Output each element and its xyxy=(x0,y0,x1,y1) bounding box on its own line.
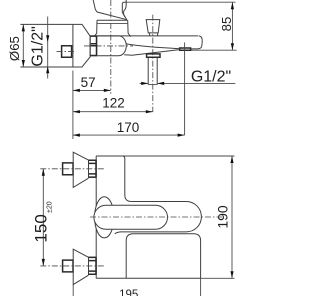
svg-text:Ø65: Ø65 xyxy=(7,36,22,61)
aerator xyxy=(180,48,191,50)
diverter knob xyxy=(146,20,160,33)
svg-text:±20: ±20 xyxy=(46,201,53,213)
svg-text:G1/2": G1/2" xyxy=(30,26,47,66)
G1/2 right arrow xyxy=(157,82,164,85)
dimension Ø65 line xyxy=(22,24,24,67)
svg-text:57: 57 xyxy=(81,75,96,90)
G1/2 right arrow left xyxy=(141,82,148,85)
cartridge bonnet right side xyxy=(128,20,131,36)
body and spout top edge xyxy=(95,35,199,37)
diverter knob legs xyxy=(150,33,158,36)
extension line from lever top to 85 dimension xyxy=(127,1,236,3)
eccentric nut side view xyxy=(90,36,97,56)
dimension 57 right arrow xyxy=(104,89,111,92)
bottom fitting nut thread lines xyxy=(89,261,96,272)
bottom fitting pipe xyxy=(63,260,73,272)
shower outlet pipe end xyxy=(148,84,157,86)
dimension 122 line xyxy=(73,111,153,113)
dimension 190 top arrow xyxy=(230,156,233,163)
cartridge centerline xyxy=(110,0,112,94)
dimension 170 left arrow xyxy=(73,134,80,137)
body bottom edge xyxy=(96,277,200,279)
dimension 57 line xyxy=(73,89,111,91)
body outer pill xyxy=(115,202,202,234)
spout tip xyxy=(191,36,202,49)
bottom fitting hexagon xyxy=(73,249,88,284)
cartridge bonnet lower ring xyxy=(97,23,127,25)
spout lower underside xyxy=(124,50,178,56)
dimension 85 top arrow xyxy=(231,2,234,9)
top fitting pipe xyxy=(63,163,73,175)
dimension 85 bottom arrow xyxy=(231,43,234,50)
lever handle xyxy=(93,0,127,20)
svg-text:170: 170 xyxy=(117,120,140,135)
body centerline xyxy=(84,45,133,47)
top fitting hexagon xyxy=(73,152,88,187)
dimension 150 bottom arrow xyxy=(42,259,45,266)
wall pipe centerline xyxy=(57,51,76,53)
handle pill xyxy=(94,205,168,229)
dimension 85 line xyxy=(231,2,233,50)
dimension 122 right arrow xyxy=(146,110,153,113)
spout upper underside xyxy=(126,44,179,49)
dimension 190 line xyxy=(231,156,233,278)
dimension Ø65 top arrow xyxy=(22,24,25,31)
svg-text:G1/2": G1/2" xyxy=(191,69,231,86)
body top boss bottom view xyxy=(96,156,131,202)
dimension 122 left arrow xyxy=(73,110,80,113)
dimension 195 left extension xyxy=(72,285,74,296)
svg-text:85: 85 xyxy=(219,17,234,32)
dimension 150 top arrow xyxy=(42,169,45,176)
body spout slab bottom view xyxy=(126,234,200,278)
dimension Ø65 bottom arrow xyxy=(22,60,25,67)
dimension 170 right arrow xyxy=(178,134,185,137)
diverter/outlet centerline xyxy=(152,15,154,112)
body back edge xyxy=(95,156,97,278)
handle dome xyxy=(95,197,114,238)
svg-text:195: 195 xyxy=(119,289,138,296)
body capsule xyxy=(95,36,127,56)
cartridge bonnet left side xyxy=(95,20,97,36)
190 bottom extension beyond body xyxy=(201,277,235,279)
dimension 170 line xyxy=(73,134,185,136)
cartridge bonnet xyxy=(97,19,128,21)
bottom view centerline xyxy=(90,216,224,218)
svg-text:122: 122 xyxy=(102,96,125,111)
wall flange xyxy=(72,24,74,67)
dimension 190 bottom arrow xyxy=(230,271,233,278)
top fitting nut thread lines xyxy=(89,163,96,174)
dimension 57 left arrow xyxy=(73,89,80,92)
dimension G1/2 left line xyxy=(47,17,49,79)
dimension G1/2 left upper arrow xyxy=(46,35,49,42)
bottom fitting centerline xyxy=(40,265,104,267)
svg-text:190: 190 xyxy=(215,205,231,229)
G1/2 right label leader left xyxy=(140,82,149,84)
shower outlet pipe xyxy=(148,57,157,84)
bottom fitting nut xyxy=(89,257,97,274)
wall pipe xyxy=(62,46,72,58)
dimension 150 line xyxy=(42,169,44,266)
top fitting nut xyxy=(89,160,97,177)
190 top extension / boss top edge xyxy=(96,155,234,157)
nut thread marks xyxy=(91,44,97,46)
top fitting centerline xyxy=(40,168,104,170)
wall extension line xyxy=(72,71,74,140)
shower outlet collar xyxy=(147,54,160,57)
dimension G1/2 left lower arrow xyxy=(46,66,49,73)
aerator centerline / 170 extension xyxy=(184,42,186,135)
svg-text:150: 150 xyxy=(31,214,50,242)
dimension 195 right extension xyxy=(200,278,202,296)
extension line from aerator bottom to 85 dimension xyxy=(185,49,237,51)
G1/2 right underline xyxy=(157,82,235,84)
